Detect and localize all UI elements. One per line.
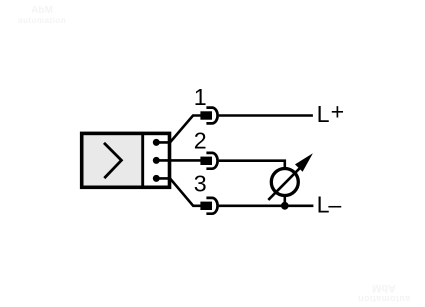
- junction node: [281, 202, 289, 210]
- svg-text:3: 3: [194, 170, 207, 196]
- svg-text:+: +: [331, 99, 345, 125]
- meter bottom stub: [283, 196, 286, 206]
- terminal strip divider: [141, 133, 144, 187]
- wire pin3 to plug3: [156, 178, 200, 205]
- svg-text:–: –: [328, 192, 341, 218]
- terminal dot pin2: [153, 157, 160, 164]
- connector plug 1 socket: [206, 108, 217, 124]
- wire plug3 to L-: [219, 205, 314, 208]
- sensor body fill: [84, 135, 142, 185]
- connector plug 3 pin: [200, 202, 212, 210]
- connector plug 2 pin: [200, 157, 212, 165]
- load meter circle P1: [271, 169, 298, 196]
- meter arrow shaft: [268, 168, 300, 200]
- wire pin1 to plug1: [156, 116, 200, 143]
- terminal dot pin1: [153, 139, 160, 146]
- svg-text:1: 1: [194, 84, 207, 110]
- terminal dot pin3: [153, 175, 160, 182]
- connector plug 2 socket: [206, 153, 217, 169]
- chevron symbol: [104, 143, 121, 178]
- wire pin2 to plug2: [156, 159, 200, 162]
- watermark bottom-right: [354, 282, 414, 303]
- sensor U1 outline: [82, 133, 170, 187]
- connector plug 1 pin: [200, 111, 212, 119]
- wire plug1 to L+: [219, 114, 313, 117]
- watermark top-left: [18, 6, 66, 25]
- svg-text:L: L: [317, 101, 330, 127]
- meter arrow head: [295, 153, 313, 171]
- wire plug2 to load: [219, 161, 285, 168]
- connector plug 3 socket: [206, 198, 217, 214]
- svg-text:2: 2: [194, 128, 207, 154]
